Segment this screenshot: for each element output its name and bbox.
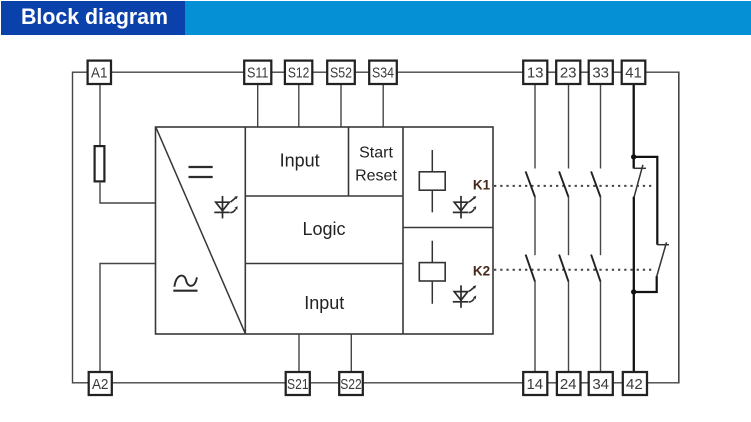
wire top bus 13 to 23 xyxy=(548,71,557,73)
relay coil K2 xyxy=(419,241,445,304)
terminal 24 xyxy=(557,372,581,395)
terminal S11 xyxy=(244,61,271,84)
wire S34 to start-reset xyxy=(382,85,384,127)
wire top bus S11 to S12 xyxy=(272,71,286,73)
terminal 41 xyxy=(622,61,646,84)
wire bottom bus right rail to 42 xyxy=(647,382,680,384)
contact chain 23-24 (K1,K2 NO) xyxy=(559,85,568,371)
node junction top (41 branch) xyxy=(631,154,636,159)
wire top bus S52 to S34 xyxy=(355,71,369,73)
wire top bus 33 to 41 xyxy=(613,71,622,73)
terminal S22 xyxy=(339,372,363,395)
wire fuse to power supply xyxy=(100,183,156,203)
wire bottom bus 34 to 42 xyxy=(613,382,623,384)
svg-text:41: 41 xyxy=(625,65,642,82)
mechanical link K2 (dotted) xyxy=(494,269,653,271)
wire top bus S34 to 13 xyxy=(397,71,523,73)
svg-text:K2: K2 xyxy=(473,264,490,279)
wire top bus 41 to right rail xyxy=(646,71,680,73)
contact chain 13-14 (K1,K2 NO) xyxy=(526,85,535,371)
wire bottom bus left rail to A2 xyxy=(73,382,89,384)
wire left rail A1 to A2 xyxy=(72,72,74,384)
terminal 14 xyxy=(523,372,547,395)
svg-text:S12: S12 xyxy=(288,65,310,82)
NC contact path 41-42 (K1,K2 parallel) xyxy=(634,85,669,371)
DC symbol xyxy=(189,167,213,177)
wire S52 to input xyxy=(340,85,342,127)
title banner light blue stripe xyxy=(185,1,751,35)
svg-text:Input: Input xyxy=(280,150,320,170)
wire A2 to power supply xyxy=(100,264,156,372)
terminal A2 xyxy=(89,372,112,395)
wire top bus A1 to S11 xyxy=(112,71,244,73)
node junction bottom (42 branch) xyxy=(631,289,636,294)
wire bottom bus 24 to 34 xyxy=(580,382,590,384)
title banner dark blue xyxy=(1,1,185,35)
terminal 42 xyxy=(623,372,647,395)
wire block to S22 xyxy=(350,334,352,371)
wire bottom bus A2 to S21 xyxy=(113,382,286,384)
divider input / start-reset xyxy=(348,127,350,196)
terminal S21 xyxy=(286,372,310,395)
terminal 33 xyxy=(589,61,613,84)
svg-text:34: 34 xyxy=(592,376,609,393)
svg-text:Start: Start xyxy=(359,144,393,161)
wire right rail xyxy=(678,72,680,384)
contact chain 33-34 (K1,K2 NO) xyxy=(591,85,600,371)
svg-text:S21: S21 xyxy=(287,376,309,393)
LED indicator power section xyxy=(214,196,238,219)
wire A1 to fuse xyxy=(99,85,101,146)
terminal S52 xyxy=(327,61,355,84)
wire S12 to input xyxy=(298,85,300,127)
svg-text:23: 23 xyxy=(560,65,577,82)
svg-text:S22: S22 xyxy=(340,376,362,393)
module outline U1 xyxy=(156,127,494,334)
terminal 34 xyxy=(589,372,613,395)
relay coil K1 xyxy=(419,150,445,212)
svg-text:33: 33 xyxy=(592,65,609,82)
fuse xyxy=(95,146,105,181)
divider K1 cell / K2 cell xyxy=(403,227,493,229)
svg-text:24: 24 xyxy=(560,376,577,393)
terminal S12 xyxy=(285,61,312,84)
wire block to S21 xyxy=(298,334,300,371)
divider below input row xyxy=(245,195,403,197)
LED indicator K2 xyxy=(453,285,477,308)
svg-text:14: 14 xyxy=(526,376,543,393)
svg-text:S11: S11 xyxy=(247,65,269,82)
svg-text:13: 13 xyxy=(527,65,544,82)
terminal S34 xyxy=(369,61,397,84)
svg-text:A2: A2 xyxy=(92,376,109,393)
svg-text:Input: Input xyxy=(304,293,344,313)
terminal 23 xyxy=(556,61,580,84)
wire top bus 23 to 33 xyxy=(581,71,590,73)
divider power section / logic section xyxy=(244,127,246,334)
svg-text:Logic: Logic xyxy=(302,219,345,239)
terminal 13 xyxy=(523,61,547,84)
svg-text:K1: K1 xyxy=(473,178,491,193)
wire left stub from A1 xyxy=(73,71,88,73)
svg-text:Block diagram: Block diagram xyxy=(21,4,168,29)
wire bottom bus S22 to 14 xyxy=(363,382,523,384)
terminal A1 xyxy=(88,61,111,84)
mechanical link K1 (dotted) xyxy=(494,185,653,187)
svg-text:42: 42 xyxy=(626,376,643,393)
svg-text:Reset: Reset xyxy=(355,168,397,185)
svg-text:S34: S34 xyxy=(372,65,394,82)
AC symbol xyxy=(173,276,197,291)
divider logic section / relay section xyxy=(402,127,404,334)
wire top bus S12 to S52 xyxy=(313,71,328,73)
svg-text:S52: S52 xyxy=(330,65,352,82)
svg-text:A1: A1 xyxy=(91,65,108,82)
wire bottom bus 14 to 24 xyxy=(547,382,557,384)
divider logic / lower input xyxy=(245,263,403,265)
LED indicator K1 xyxy=(453,196,477,219)
wire bottom bus S21 to S22 xyxy=(310,382,339,384)
power supply diagonal divider xyxy=(156,128,245,334)
wire S11 to input xyxy=(257,85,259,127)
